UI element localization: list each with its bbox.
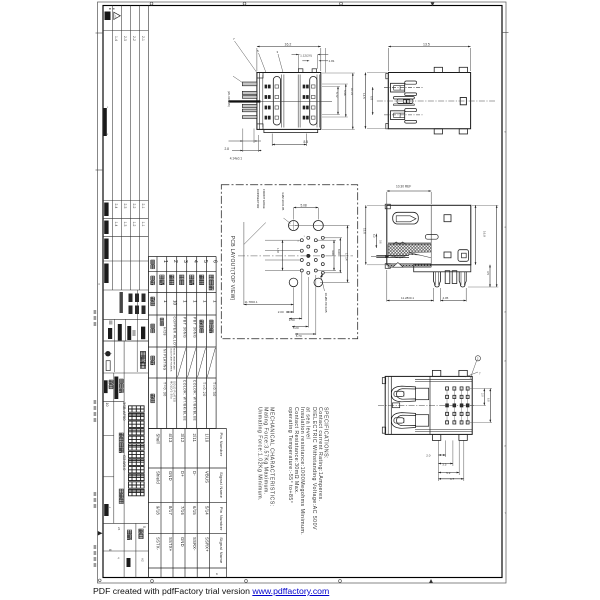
svg-text:1: 1: [203, 300, 208, 303]
svg-text:1-4: 1-4: [114, 36, 118, 41]
svg-text:14.5: 14.5: [362, 93, 366, 99]
svg-text:2: 2: [477, 357, 479, 361]
svg-text:SSTX+: SSTX+: [168, 537, 173, 552]
svg-text:6.70: 6.70: [296, 334, 302, 338]
svg-text:4/13: 4/13: [168, 434, 173, 443]
svg-text:3/12: 3/12: [180, 434, 185, 443]
svg-text:1: 1: [193, 300, 198, 303]
svg-text:A2: A2: [141, 558, 145, 562]
svg-text:7: 7: [233, 37, 235, 41]
svg-text:3.50: 3.50: [289, 318, 295, 322]
svg-text:13.14: 13.14: [344, 253, 348, 261]
svg-text:x: x: [107, 106, 109, 109]
svg-text:2-1: 2-1: [141, 36, 145, 41]
svg-text:1-3: 1-3: [123, 222, 127, 227]
svg-text:16.9: 16.9: [483, 231, 487, 237]
svg-text:2.00: 2.00: [278, 310, 284, 314]
svg-text:11.78±0.1: 11.78±0.1: [245, 300, 258, 304]
svg-text:6.72: 6.72: [335, 92, 339, 98]
svg-text:7: 7: [479, 372, 481, 376]
svg-text:▸: ▸: [110, 506, 111, 509]
svg-text:COPPER ALLOY: COPPER ALLOY: [172, 317, 176, 349]
svg-text:24: 24: [117, 527, 121, 531]
svg-text:SSRX+: SSRX+: [204, 537, 209, 552]
svg-text:D+: D+: [180, 471, 185, 477]
svg-text:1.12(2X): 1.12(2X): [300, 53, 312, 57]
svg-text:1: 1: [163, 300, 168, 303]
svg-text:2: 2: [172, 260, 178, 263]
svg-text:9/18: 9/18: [156, 506, 161, 515]
svg-text:x: x: [107, 133, 109, 136]
svg-text:6: 6: [212, 260, 218, 263]
svg-text:2.0: 2.0: [481, 393, 485, 397]
svg-text:2-3: 2-3: [123, 204, 127, 209]
svg-text:Shield: Shield: [156, 471, 161, 484]
svg-text:GND: GND: [168, 471, 173, 481]
svg-text:1/10: 1/10: [204, 434, 209, 443]
svg-text:COLOR: WT/BK/BLUE: COLOR: WT/BK/BLUE: [182, 380, 186, 422]
svg-text:Pin Number: Pin Number: [219, 507, 224, 531]
svg-text:NI PLATING: NI PLATING: [163, 349, 167, 371]
svg-text:3: 3: [182, 260, 188, 263]
svg-text:5/14: 5/14: [204, 506, 209, 515]
svg-text:3.5: 3.5: [442, 462, 447, 466]
svg-text:5: 5: [202, 260, 208, 263]
svg-text:D-: D-: [192, 471, 197, 476]
svg-text:4-Ø2.30±0.05: 4-Ø2.30±0.05: [281, 192, 285, 211]
svg-text:G2.8/3.0: G2.8/3.0: [122, 455, 127, 471]
svg-text:operating Temperature:-55° to+: operating Temperature:-55° to+85°: [287, 407, 293, 503]
svg-text:4.05: 4.05: [443, 296, 449, 300]
svg-text:2/11: 2/11: [192, 434, 197, 443]
svg-text:CONNECTOR: CONNECTOR: [256, 189, 260, 209]
svg-text:4: 4: [98, 282, 100, 286]
svg-text:5: 5: [257, 49, 259, 53]
svg-text:4: 4: [192, 260, 198, 263]
svg-text:PCB LAYOUT(TOP VIEW): PCB LAYOUT(TOP VIEW): [229, 236, 235, 301]
svg-text:10.31: 10.31: [350, 88, 354, 95]
svg-text:10: 10: [173, 300, 178, 306]
svg-text:2-1: 2-1: [141, 204, 145, 209]
svg-text:2-4: 2-4: [114, 204, 118, 209]
svg-text:6: 6: [108, 549, 112, 551]
svg-text:0.6: 0.6: [378, 240, 382, 244]
svg-text:15.8: 15.8: [362, 228, 366, 234]
svg-text:6.98: 6.98: [343, 90, 347, 96]
svg-text:6.9: 6.9: [370, 96, 374, 100]
svg-text:10-Ø0.70±0.05: 10-Ø0.70±0.05: [324, 293, 328, 313]
svg-text:VBUS: VBUS: [204, 471, 209, 483]
svg-text:Pin Number: Pin Number: [219, 433, 224, 457]
svg-text:Shell: Shell: [156, 434, 161, 444]
svg-text:DIELECTRIC Withstanding Voltag: DIELECTRIC Withstanding Voltage:AC 500V: [311, 407, 317, 530]
svg-text:5.20: 5.20: [293, 326, 299, 330]
svg-text:1: 1: [183, 300, 188, 303]
svg-text:SSTX-: SSTX-: [156, 537, 161, 551]
svg-text:7/16: 7/16: [180, 506, 185, 515]
svg-text:GND: GND: [180, 537, 185, 547]
svg-text:16.2: 16.2: [285, 43, 292, 47]
svg-text:SSRX-: SSRX-: [192, 537, 197, 551]
svg-text:4: 4: [117, 557, 121, 559]
svg-text:(Ø1.00±0.05): (Ø1.00±0.05): [227, 91, 231, 107]
svg-text:T=0.30: T=0.30: [212, 382, 216, 397]
svg-text:6.2: 6.2: [372, 234, 376, 238]
svg-text:8.5: 8.5: [304, 140, 309, 144]
svg-text:1.81: 1.81: [329, 59, 335, 63]
svg-text:3.5: 3.5: [486, 271, 490, 275]
svg-text:1-1: 1-1: [141, 222, 145, 227]
svg-text:2-2: 2-2: [132, 204, 136, 209]
svg-text:8/17: 8/17: [168, 506, 173, 515]
svg-text:4.00: 4.00: [331, 250, 335, 256]
svg-text:4.14±0.1: 4.14±0.1: [230, 156, 243, 160]
svg-text:Signal Name: Signal Name: [219, 537, 224, 564]
svg-text:COLOR: WT/BK/BLUE: COLOR: WT/BK/BLUE: [192, 380, 196, 422]
svg-text:1: 1: [212, 300, 217, 303]
svg-text:PBT 30NG: PBT 30NG: [182, 317, 186, 338]
svg-text:Contact current Rating:1Ampere: Contact current Rating:1Amperes.: [317, 407, 323, 501]
svg-text:GOLD FLASH PIN AREA: GOLD FLASH PIN AREA: [170, 348, 173, 372]
svg-text:10.30 REF: 10.30 REF: [396, 185, 411, 189]
svg-text:1-4: 1-4: [114, 222, 118, 227]
svg-text:2.8: 2.8: [225, 147, 230, 151]
svg-text:GOLD PLATED: GOLD PLATED: [173, 381, 177, 402]
svg-text:2.0: 2.0: [426, 453, 431, 457]
svg-text:2: 2: [298, 241, 300, 243]
svg-text:Unmating Force:1.02Kg Minimum.: Unmating Force:1.02Kg Minimum.: [257, 407, 263, 501]
svg-text:2-3: 2-3: [123, 36, 127, 41]
svg-text:1.90: 1.90: [276, 248, 280, 254]
svg-text:T=0.20: T=0.20: [202, 382, 206, 397]
svg-text:1: 1: [162, 260, 168, 263]
svg-text:13.5: 13.5: [423, 43, 430, 47]
svg-text:5.2: 5.2: [446, 471, 451, 475]
svg-text:6/15: 6/15: [192, 506, 197, 515]
svg-text:10: 10: [105, 403, 109, 407]
svg-text:1-2: 1-2: [132, 222, 136, 227]
svg-text:NICKEL UNDERPLATE: NICKEL UNDERPLATE: [173, 348, 176, 370]
svg-text:6.8: 6.8: [487, 398, 491, 402]
svg-text:3SB-AF90: 3SB-AF90: [122, 402, 127, 421]
svg-text:3: 3: [277, 50, 279, 54]
svg-text:6.7: 6.7: [450, 477, 455, 481]
svg-text:5.08: 5.08: [301, 203, 307, 207]
svg-text:1: 1: [304, 236, 306, 238]
svg-text:98: 98: [143, 526, 146, 529]
svg-text:T=0.30: T=0.30: [163, 382, 167, 397]
svg-text:Signal Name: Signal Name: [219, 472, 224, 499]
svg-text:H/28: H/28: [162, 327, 166, 336]
svg-text:8.00: 8.00: [337, 249, 341, 255]
svg-text:11.28±0.1: 11.28±0.1: [401, 296, 414, 300]
svg-text:2-2: 2-2: [132, 36, 136, 41]
svg-text:B: B: [216, 572, 218, 576]
svg-text:PBT 30NG: PBT 30NG: [192, 317, 196, 338]
svg-text:FRONT EDGE: FRONT EDGE: [262, 189, 266, 209]
